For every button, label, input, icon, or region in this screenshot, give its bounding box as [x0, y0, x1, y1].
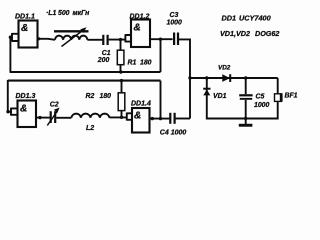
pin tie-bar inputs DD1.2: [125, 34, 131, 42]
inductor L1 core bar: [54, 30, 89, 32]
wire feedback rail 2: [8, 80, 161, 82]
node A : DD1.1 input junction: [9, 36, 12, 39]
svg-text:R2: R2: [86, 93, 95, 100]
node O : DD1.1 output dot: [37, 37, 40, 40]
NAND gate DD1.2: [131, 20, 150, 48]
svg-text:&: &: [21, 23, 28, 34]
svg-text:&: &: [134, 23, 141, 34]
node K : mixing junction: [188, 76, 191, 79]
NAND gate DD1.3: [18, 101, 37, 128]
svg-text:1000: 1000: [167, 20, 182, 27]
svg-text:1000: 1000: [254, 102, 269, 109]
svg-text:180: 180: [140, 60, 152, 67]
wire DD1.3 output: [36, 117, 50, 119]
svg-text:DD1: DD1: [222, 14, 237, 23]
svg-text:C4 1000: C4 1000: [160, 129, 187, 136]
wire L2 to DD1.4 input: [109, 116, 126, 118]
svg-text:200: 200: [97, 57, 110, 64]
wire C2 to L2: [56, 117, 71, 119]
wire R2 bottom stub: [121, 111, 123, 118]
wire R2 top stub: [121, 81, 123, 93]
capacitor C5: [239, 94, 252, 100]
wire DD1.2 output: [150, 38, 173, 40]
resistor R1: [117, 50, 124, 64]
svg-text:C5: C5: [256, 94, 265, 101]
wire C5 top stub: [245, 78, 247, 94]
node N : ground junction: [244, 117, 247, 120]
svg-text:500: 500: [58, 10, 70, 17]
svg-text:DOG62: DOG62: [255, 29, 279, 38]
svg-text:DD1.3: DD1.3: [16, 93, 36, 100]
node J : rail2 bottom junction: [159, 117, 162, 120]
node D : DD1.2 output junction: [159, 38, 162, 41]
wire C5 bottom stub: [245, 100, 247, 119]
pin tie-bar inputs DD1.1: [12, 33, 19, 42]
svg-text:BF1: BF1: [285, 93, 298, 100]
svg-text:VD2: VD2: [218, 64, 231, 71]
node G : DD1.3 output dot: [38, 116, 41, 119]
svg-text:UCY7400: UCY7400: [239, 14, 271, 23]
wire detector rail: [190, 77, 278, 79]
node L : VD1 top junction: [205, 76, 208, 79]
wire to BF1: [277, 78, 279, 94]
node M : C5 top junction: [244, 76, 247, 79]
wire L1 to C1: [87, 39, 102, 41]
node I : DD1.4 output dot: [151, 117, 154, 120]
svg-text:DD1.4: DD1.4: [131, 101, 151, 108]
capacitor C1: [102, 35, 109, 45]
svg-text:мкГн: мкГн: [73, 10, 91, 17]
wire rail2 right down: [160, 81, 162, 119]
diode VD2: [222, 74, 230, 82]
wire C4 to mixing node: [176, 118, 191, 120]
svg-text:180: 180: [100, 93, 112, 100]
svg-text:&: &: [20, 104, 27, 115]
arrow adjustable core L1: [62, 27, 87, 46]
svg-text:VD1: VD1: [213, 93, 227, 100]
resistor R2: [118, 93, 125, 111]
wire R1 bottom stub: [120, 65, 122, 72]
inductor L2: [71, 114, 109, 118]
wire left vertical feedback: [9, 37, 11, 72]
pin tie-bar inputs DD1.3: [11, 108, 18, 116]
capacitor C2 variable: [50, 111, 57, 123]
svg-text:VD1,VD2: VD1,VD2: [220, 29, 250, 38]
NAND gate DD1.4: [132, 108, 150, 133]
svg-text:DD1.2: DD1.2: [130, 13, 150, 20]
svg-text:&: &: [134, 111, 141, 122]
wire feedback rail 1: [10, 71, 161, 73]
arrow C2 adjustable: [47, 108, 59, 126]
wire DD1.4 output: [150, 118, 170, 120]
NAND gate DD1.1: [19, 21, 38, 48]
wire DD1.1 output: [38, 39, 56, 40]
wire DD1.2 output down: [160, 39, 162, 72]
capacitor C3: [173, 33, 179, 46]
wire DD1.3 input stub: [7, 111, 11, 113]
headphone BF1: [275, 93, 283, 102]
pin tie-bar inputs DD1.4: [127, 113, 132, 121]
node F : DD1.3 input junction: [6, 110, 9, 113]
wire rail2 left down: [7, 80, 9, 112]
svg-text:C1: C1: [102, 50, 111, 57]
node E : R2 top junction: [120, 79, 123, 82]
diode VD1: [203, 89, 210, 96]
svg-text:L2: L2: [86, 125, 94, 132]
node B : R1 top junction: [119, 38, 122, 41]
wire VD1 branch: [207, 78, 246, 119]
ground: [239, 119, 253, 127]
svg-text:C3: C3: [170, 12, 179, 19]
node C : R1 bottom junction: [119, 70, 122, 73]
svg-text:DD1.1: DD1.1: [15, 14, 35, 21]
node H : DD1.4 input junction: [120, 116, 123, 119]
svg-text:R1: R1: [128, 60, 137, 67]
wire BF1 bottom: [246, 101, 278, 118]
inductor L1: [55, 36, 87, 40]
wire DD1.1 input stub: [10, 36, 13, 38]
wire C1 to DD1.2 input: [109, 39, 126, 41]
capacitor C4: [169, 113, 176, 124]
svg-text:C2: C2: [50, 102, 59, 109]
svg-text:·L1: ·L1: [46, 10, 57, 17]
wire C3 to mixing node: [178, 39, 190, 118]
wire R1 top stub: [120, 40, 122, 51]
